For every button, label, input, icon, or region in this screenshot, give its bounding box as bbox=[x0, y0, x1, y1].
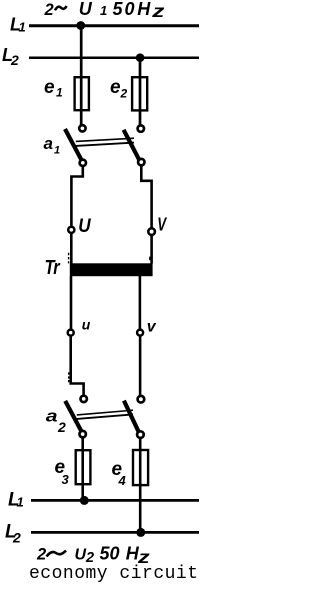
svg-text:U: U bbox=[75, 547, 87, 564]
svg-text:2: 2 bbox=[10, 52, 19, 68]
svg-text:50: 50 bbox=[113, 0, 135, 19]
svg-text:50: 50 bbox=[100, 544, 120, 564]
svg-text:H: H bbox=[137, 0, 151, 19]
svg-text:3: 3 bbox=[62, 472, 70, 487]
svg-text:V: V bbox=[157, 214, 167, 235]
svg-text:U: U bbox=[78, 214, 91, 236]
svg-text:1: 1 bbox=[17, 495, 24, 510]
svg-text:2: 2 bbox=[57, 419, 66, 435]
svg-text:a: a bbox=[44, 134, 53, 153]
svg-text:u: u bbox=[82, 317, 91, 333]
svg-text:Tr: Tr bbox=[45, 255, 61, 278]
svg-text:e: e bbox=[110, 77, 121, 98]
svg-text:a: a bbox=[46, 408, 58, 427]
svg-text:2: 2 bbox=[36, 546, 46, 564]
svg-text:2: 2 bbox=[44, 1, 54, 19]
svg-text:e: e bbox=[44, 77, 55, 98]
svg-text:v: v bbox=[147, 319, 157, 336]
svg-text:U: U bbox=[79, 0, 93, 19]
svg-text:z: z bbox=[151, 1, 165, 21]
svg-text:1: 1 bbox=[19, 20, 26, 35]
svg-text:1: 1 bbox=[54, 145, 60, 157]
svg-text:economy circuit: economy circuit bbox=[29, 564, 199, 584]
svg-text:1: 1 bbox=[56, 85, 63, 99]
svg-text:2: 2 bbox=[120, 86, 128, 100]
svg-text:1: 1 bbox=[100, 3, 107, 18]
svg-text:4: 4 bbox=[118, 473, 127, 488]
svg-text:2: 2 bbox=[12, 530, 21, 546]
